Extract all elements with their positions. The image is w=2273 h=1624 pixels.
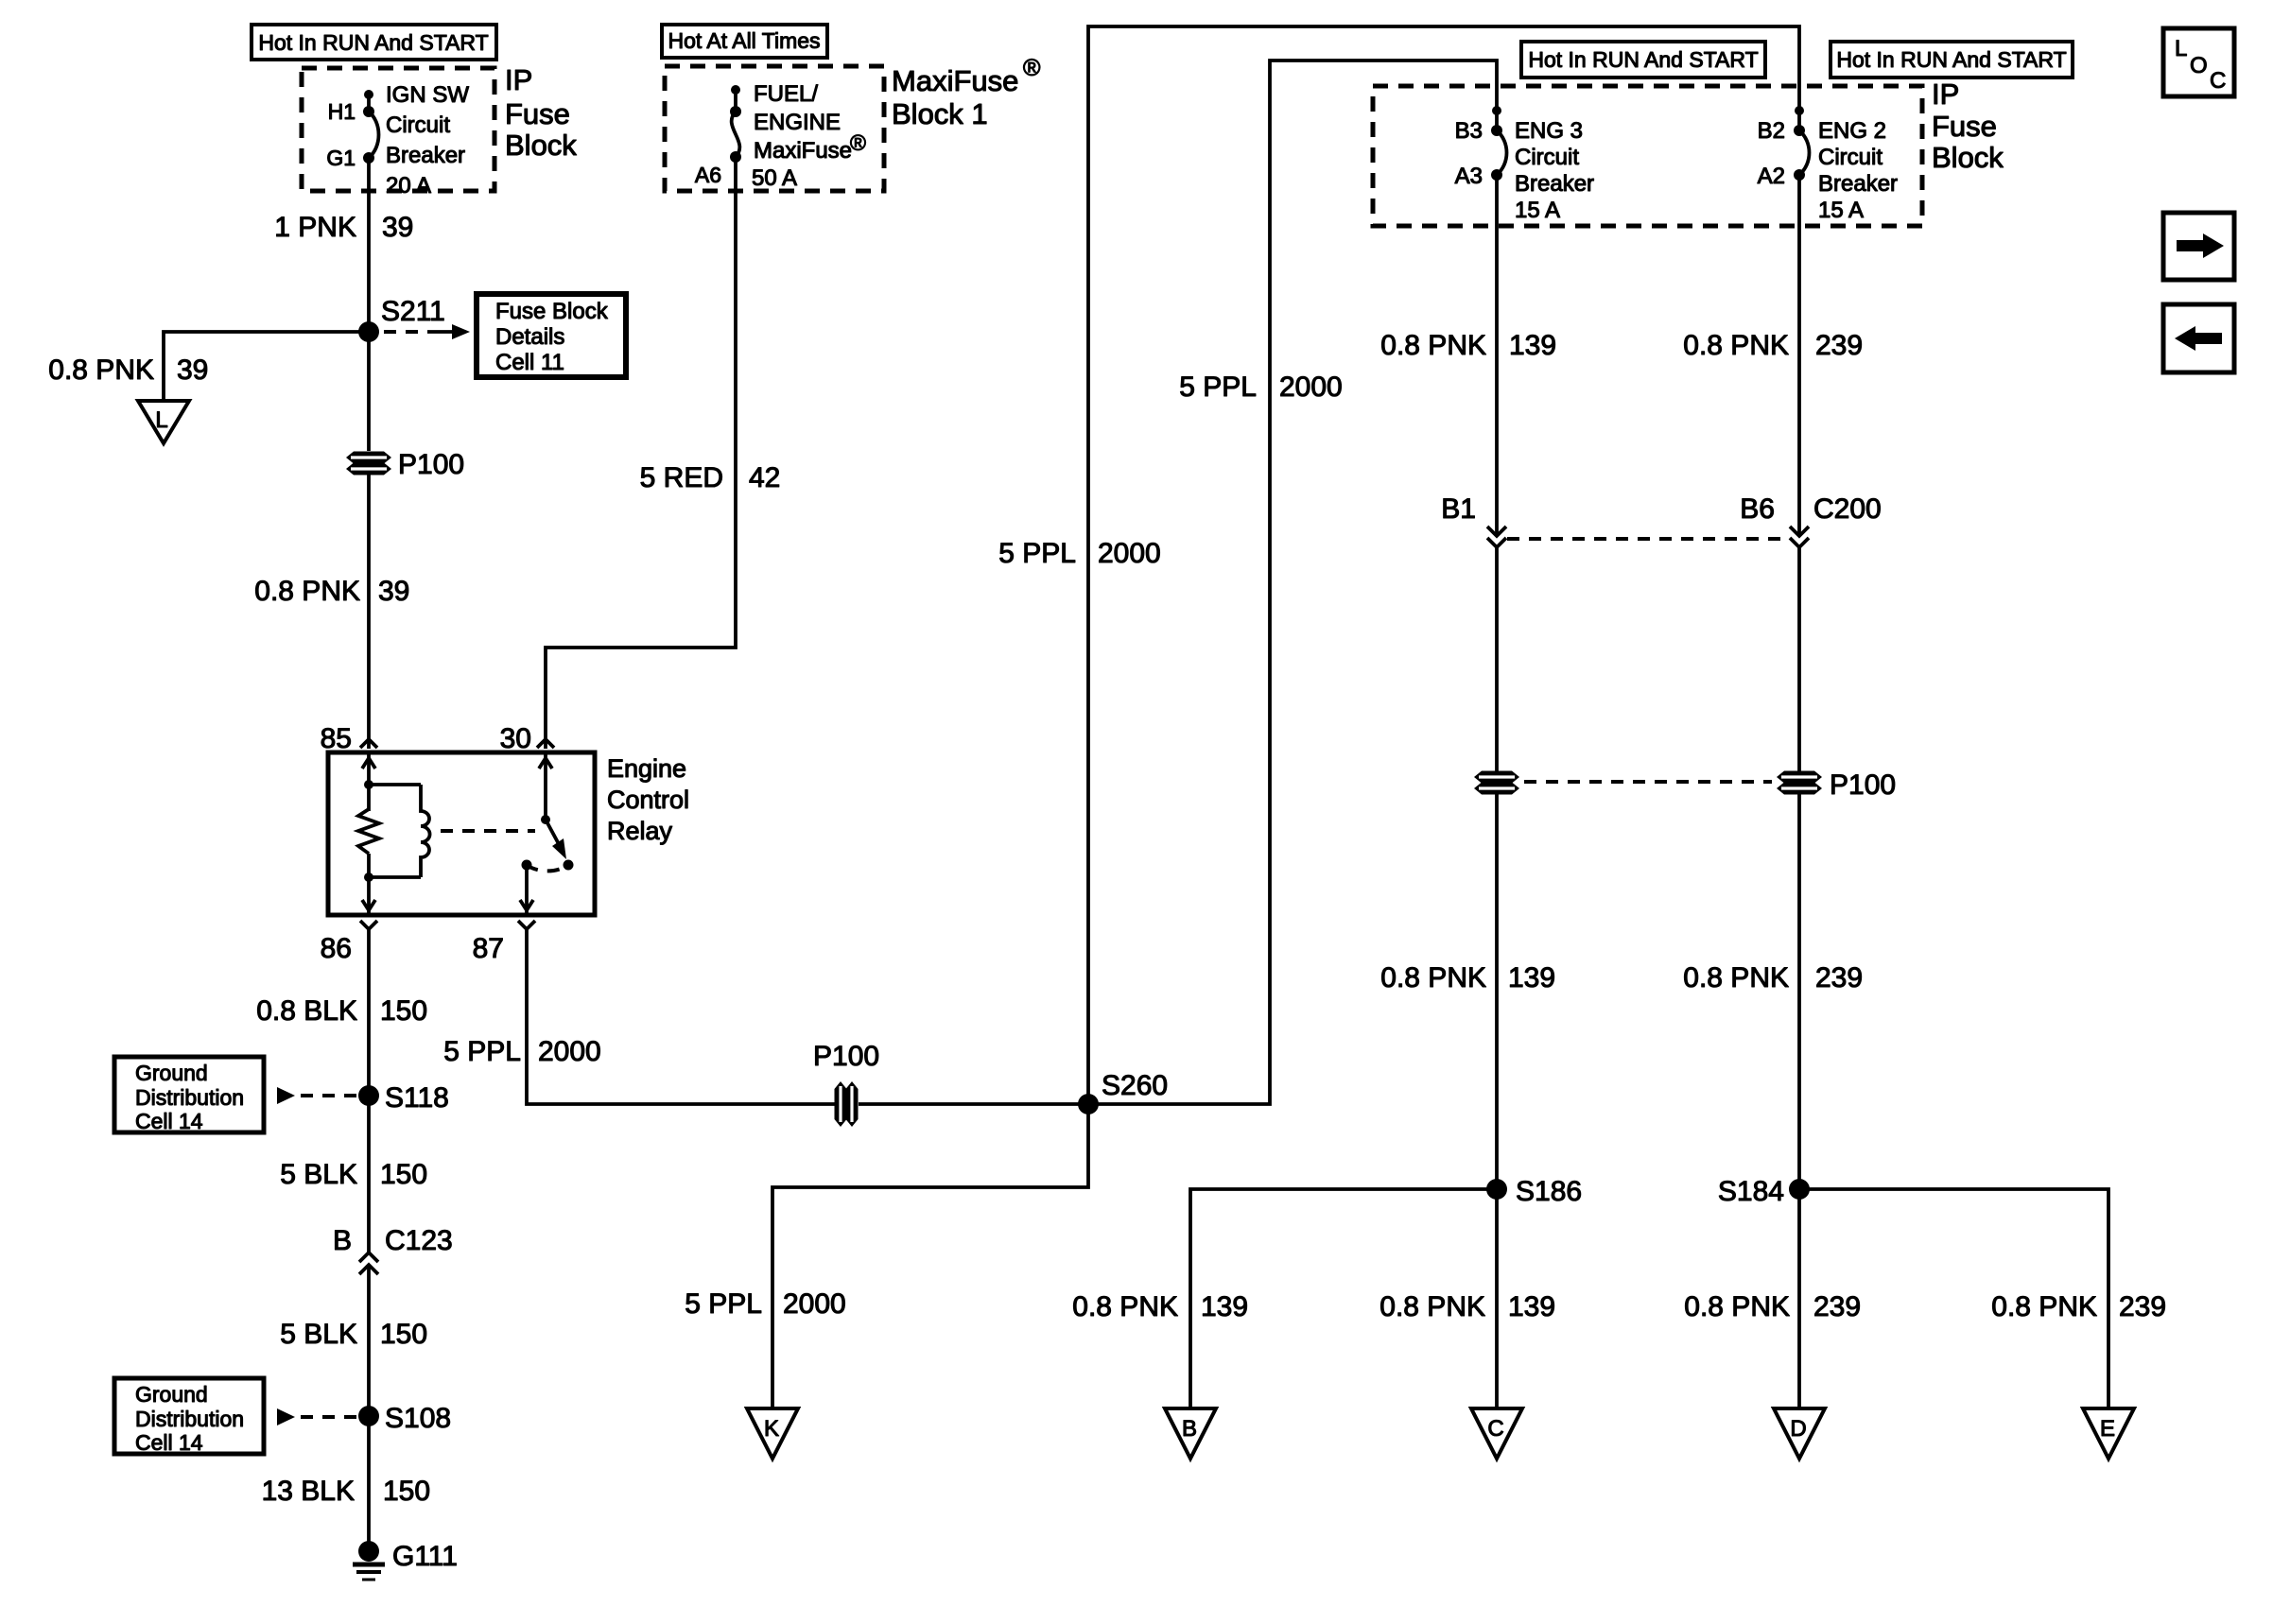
svg-text:S211: S211 [381,296,445,327]
svg-text:Distribution: Distribution [135,1407,244,1431]
IP fuse block dashed outline [302,68,495,191]
node S211 [358,321,379,342]
svg-text:A2: A2 [1758,164,1785,189]
svg-text:C: C [1487,1416,1503,1442]
svg-text:50 A: 50 A [752,165,797,191]
SECTION: left column wires [114,929,458,1580]
switch (relay contacts) [544,752,547,820]
wire relay pin 86 to S118 [367,929,371,1096]
circuit breaker ENG 2 15A [1795,106,1804,115]
dashed actuator link [441,829,535,833]
circuit breaker IGN SW 20A [364,90,373,99]
dashed connector line P100 [1524,780,1772,784]
svg-text:®: ® [1023,55,1041,81]
svg-text:B: B [1182,1416,1197,1442]
wire C200 to P100 (right) [1797,547,1801,772]
wire P100 to relay pin 85 [367,474,371,749]
svg-text:5 BLK: 5 BLK [280,1159,357,1190]
svg-text:0.8 PNK: 0.8 PNK [1072,1291,1178,1322]
svg-text:B: B [333,1225,352,1256]
IP fuse block dashed outline (right) [1373,86,1922,226]
svg-text:139: 139 [1201,1291,1248,1322]
wire S184 to D [1797,1189,1801,1408]
legend box LOC [2163,28,2234,96]
svg-text:Fuse Block: Fuse Block [495,299,609,324]
wire C200 to P100 (left) [1495,547,1499,772]
svg-text:Control: Control [607,786,689,814]
SECTION: middle wires [443,26,1799,1459]
wire S186 to C [1495,1189,1499,1408]
wire G1 to S211 [367,158,371,332]
svg-text:C200: C200 [1813,493,1882,525]
svg-text:Circuit: Circuit [1515,145,1579,170]
svg-text:FUEL/: FUEL/ [754,81,818,107]
svg-text:Hot At All Times: Hot At All Times [668,28,820,53]
reference box Ground Distribution Cell 14 (upper) [114,1057,264,1132]
wire S260 right and up to ENG3 breaker [1088,60,1497,1104]
svg-text:Fuse: Fuse [505,97,570,130]
svg-text:Cell 11: Cell 11 [495,350,564,375]
svg-text:H1: H1 [328,99,356,124]
wire P100 to S186 [1495,793,1499,1189]
svg-text:Distribution: Distribution [135,1085,244,1110]
header box "Hot In RUN And START" (ENG2) [1831,42,2073,78]
svg-text:Breaker: Breaker [386,143,465,168]
wire S108 to G111 [367,1416,371,1554]
inline connector P100 (horizontal run) [835,1081,859,1127]
svg-text:2000: 2000 [1098,538,1161,569]
svg-text:K: K [764,1416,779,1442]
SECTION: relay [321,723,689,964]
svg-text:A6: A6 [695,163,721,187]
svg-text:85: 85 [321,723,352,754]
svg-text:5 PPL: 5 PPL [685,1288,762,1320]
MaxiFuse Block 1 dashed outline [665,66,884,191]
svg-text:0.8 PNK: 0.8 PNK [1684,1291,1790,1322]
svg-text:C: C [2210,68,2226,94]
svg-text:87: 87 [473,933,504,964]
svg-text:239: 239 [1815,962,1863,993]
SECTION: right columns [1373,42,2166,1459]
wire S186 branch down to B [1190,1189,1497,1408]
wire A2 down to C200 [1797,175,1801,535]
svg-text:IP: IP [1932,78,1959,111]
svg-text:1 PNK: 1 PNK [274,212,356,243]
page connector triangle K [747,1408,798,1459]
svg-text:S184: S184 [1718,1176,1784,1207]
wire S184 branch to E [1799,1189,2108,1408]
svg-text:B6: B6 [1740,493,1775,525]
page connector triangle B [1165,1408,1216,1459]
svg-text:L: L [155,407,167,433]
inline connector P100 (left column) [346,452,391,475]
page connector triangle D [1774,1408,1825,1459]
wire S211 to P100 [367,332,371,451]
dashed arrow S211 to details box [384,330,425,334]
svg-text:5 RED: 5 RED [640,462,723,493]
svg-text:Breaker: Breaker [1515,171,1594,197]
node S108 [358,1406,379,1426]
node S186 [1486,1179,1507,1200]
circuit breaker ENG 3 15A [1492,106,1501,115]
svg-text:ENG 2: ENG 2 [1818,118,1886,144]
svg-text:S108: S108 [385,1403,451,1434]
svg-text:139: 139 [1508,962,1555,993]
wire S260 down to K [772,1104,1088,1408]
svg-text:39: 39 [382,212,413,243]
header box "Hot At All Times" [662,25,827,58]
dashed connector line C200 [1507,537,1789,541]
svg-text:Hot In RUN And START: Hot In RUN And START [1528,47,1758,72]
connector C123 (pin B) [359,1253,378,1262]
svg-text:Ground: Ground [135,1382,208,1407]
terminal chevron pin 87 [518,921,535,929]
wire relay pin 87 down and right [527,929,837,1104]
wire S260 up to top and over to ENG2 breaker [1088,26,1799,1104]
inline connector P100 (left vertical) [1474,771,1519,795]
svg-text:150: 150 [380,1319,427,1350]
node S184 [1789,1179,1810,1200]
svg-text:G111: G111 [392,1541,458,1572]
node S118 [358,1085,379,1106]
svg-text:IP: IP [505,63,532,96]
svg-text:0.8 PNK: 0.8 PNK [1380,330,1486,361]
SECTION: right margin boxes [2163,28,2234,372]
legend box right arrow [2163,213,2234,280]
svg-text:S186: S186 [1516,1176,1582,1207]
svg-text:15 A: 15 A [1818,198,1864,223]
svg-text:B3: B3 [1455,118,1483,144]
dashed arrow to S108 [277,1408,295,1425]
reference box Fuse Block Details Cell 11 [477,294,626,377]
SECTION: maxifuse [546,25,1041,749]
svg-text:Hot In RUN And START: Hot In RUN And START [258,30,488,55]
header box "Hot In RUN And START" (ENG3) [1521,42,1765,78]
terminal chevron pin 85 [360,739,377,748]
resistor (relay internal) [358,809,379,854]
header box "Hot In RUN And START" [252,25,496,60]
svg-text:G1: G1 [326,146,356,170]
svg-text:B1: B1 [1441,493,1476,525]
fuse FUEL/ENGINE MaxiFuse 50A [731,85,740,95]
svg-text:0.8 PNK: 0.8 PNK [254,576,360,607]
svg-text:Circuit: Circuit [1818,145,1883,170]
page connector triangle L [138,401,189,443]
svg-text:86: 86 [321,933,352,964]
inline connector P100 (right vertical) [1777,771,1822,795]
svg-text:Circuit: Circuit [386,112,450,138]
relay K Engine Control Relay box [328,752,595,915]
svg-text:Cell 14: Cell 14 [135,1109,203,1133]
svg-text:150: 150 [380,995,427,1027]
wire A3 down to C200 [1495,175,1499,535]
svg-text:MaxiFuse: MaxiFuse [754,138,852,164]
svg-text:Ground: Ground [135,1061,208,1085]
wire C123 to S108 [367,1265,371,1416]
svg-text:P100: P100 [398,449,464,480]
svg-text:Hot In RUN And START: Hot In RUN And START [1836,47,2066,72]
svg-text:0.8 PNK: 0.8 PNK [1683,962,1789,993]
svg-text:0.8 BLK: 0.8 BLK [256,995,357,1027]
svg-text:239: 239 [2119,1291,2166,1322]
terminal chevron pin 30 [537,739,554,748]
svg-text:ENG 3: ENG 3 [1515,118,1583,144]
svg-text:Block: Block [505,129,577,162]
svg-text:5 BLK: 5 BLK [280,1319,357,1350]
svg-text:O: O [2190,53,2208,78]
svg-text:B2: B2 [1758,118,1785,144]
svg-text:5 PPL: 5 PPL [998,538,1076,569]
svg-text:IGN SW: IGN SW [386,82,469,108]
svg-text:5 PPL: 5 PPL [1179,371,1257,403]
wire P100 to S260 [859,1102,1088,1106]
svg-text:Engine: Engine [607,754,686,783]
page connector triangle C [1471,1408,1522,1459]
svg-text:0.8 PNK: 0.8 PNK [1379,1291,1485,1322]
ground G111 [358,1541,379,1562]
terminal chevron pin 86 [360,921,377,929]
reference box Ground Distribution Cell 14 (lower) [114,1378,264,1454]
svg-text:0.8 PNK: 0.8 PNK [1991,1291,2097,1322]
svg-text:39: 39 [378,576,409,607]
svg-text:®: ® [850,130,866,155]
svg-text:A3: A3 [1455,164,1483,189]
svg-text:239: 239 [1813,1291,1861,1322]
svg-text:30: 30 [500,723,531,754]
svg-text:S260: S260 [1102,1070,1168,1101]
svg-text:2000: 2000 [1279,371,1343,403]
svg-text:Block 1: Block 1 [892,97,988,130]
svg-text:42: 42 [749,462,780,493]
svg-text:Relay: Relay [607,817,673,845]
svg-text:139: 139 [1509,330,1556,361]
svg-text:P100: P100 [1830,769,1896,801]
svg-text:239: 239 [1815,330,1863,361]
coil (relay winding) [421,785,430,877]
svg-text:Cell 14: Cell 14 [135,1430,203,1455]
svg-text:0.8 PNK: 0.8 PNK [1380,962,1486,993]
svg-text:20 A: 20 A [386,173,431,199]
svg-text:0.8 PNK: 0.8 PNK [48,354,154,386]
svg-text:D: D [1790,1416,1806,1442]
wire branch S211 to L [164,332,369,401]
svg-text:L: L [2175,36,2187,61]
svg-text:C123: C123 [385,1225,453,1256]
svg-text:S118: S118 [385,1082,449,1114]
svg-text:Fuse: Fuse [1932,110,1997,143]
legend box left arrow [2163,304,2234,372]
svg-text:MaxiFuse: MaxiFuse [892,64,1018,97]
svg-text:15 A: 15 A [1515,198,1560,223]
svg-text:Breaker: Breaker [1818,171,1898,197]
wire A6 down and over to relay pin 30 [546,157,736,749]
svg-text:139: 139 [1508,1291,1555,1322]
svg-text:0.8 PNK: 0.8 PNK [1683,330,1789,361]
svg-text:Details: Details [495,324,564,350]
svg-text:Block: Block [1932,141,2004,174]
svg-text:13 BLK: 13 BLK [262,1476,355,1507]
svg-text:39: 39 [177,354,208,386]
svg-text:ENGINE: ENGINE [754,110,841,135]
svg-text:P100: P100 [813,1041,879,1072]
svg-text:150: 150 [380,1159,427,1190]
svg-text:2000: 2000 [538,1036,601,1067]
wire P100 to S184 [1797,793,1801,1189]
SECTION: top-left IGN SW breaker [48,25,626,749]
svg-text:150: 150 [383,1476,430,1507]
dashed arrow to S118 [277,1087,295,1104]
svg-text:E: E [2100,1416,2115,1442]
node S260 [1078,1094,1099,1114]
page connector triangle E [2083,1408,2134,1459]
svg-text:2000: 2000 [783,1288,846,1320]
relay coil branch wire [367,752,371,811]
svg-text:5 PPL: 5 PPL [443,1036,521,1067]
wire S118 to C123 [367,1096,371,1253]
